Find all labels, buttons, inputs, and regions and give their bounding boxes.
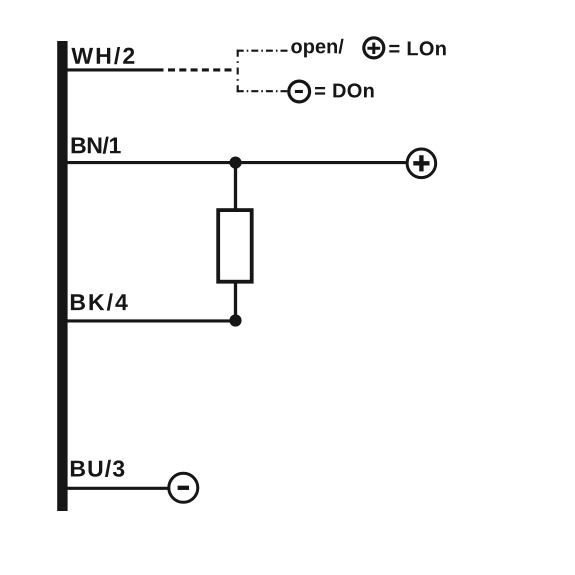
wire resistor bottom lead [234,282,237,321]
branch wire to open/ (dash-dot) [237,50,291,52]
label open/ [291,39,343,58]
wire WH/2 dashed segment [168,68,233,71]
label BU/3 (blue wire, pin 3) [71,460,124,477]
wire BU/3 [67,487,169,490]
legend terminal symbol + (light on) [364,38,384,58]
option bracket vertical (dash-dot) [237,50,239,92]
label = LOn [389,41,445,55]
junction node on BN/1 [229,157,241,169]
label BN/1 (brown wire, pin 1) [72,137,121,154]
junction node on BK/4 [229,314,241,326]
label WH/2 (white wire, pin 2) [71,47,134,64]
wire BN/1 [67,161,406,164]
terminal bar (device connector rail) [57,41,67,511]
wire BK/4 [67,319,236,322]
legend terminal symbol - (dark on) [289,81,310,102]
label = DOn [315,83,374,97]
supply terminal - (M) [169,473,198,502]
wire WH/2 solid segment [67,68,164,71]
branch wire to DOn (dash-dot) [237,90,288,92]
resistor (load) [218,210,252,282]
label BK/4 (black wire, pin 4) [71,293,128,310]
wire resistor top lead [234,163,237,211]
supply terminal + (L+) [407,149,436,178]
